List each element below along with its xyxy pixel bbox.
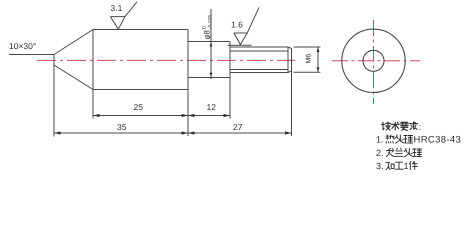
svg-text:M6: M6 [306, 54, 313, 64]
svg-text:25: 25 [134, 102, 144, 112]
svg-text:10×30°: 10×30° [9, 41, 36, 51]
svg-text:1.6: 1.6 [231, 20, 243, 30]
svg-text:φ8: φ8 [203, 30, 212, 39]
svg-text:27: 27 [233, 122, 243, 132]
svg-text:12: 12 [207, 102, 217, 112]
svg-text:1.: 1. [376, 135, 384, 145]
svg-text:3.: 3. [376, 161, 384, 171]
svg-text:HRC38-43: HRC38-43 [414, 135, 462, 146]
svg-text:3.1: 3.1 [111, 3, 123, 13]
svg-text:1: 1 [404, 161, 409, 171]
svg-text:35: 35 [117, 122, 127, 132]
svg-text:2.: 2. [376, 148, 384, 158]
svg-text:-0.015: -0.015 [207, 15, 213, 29]
